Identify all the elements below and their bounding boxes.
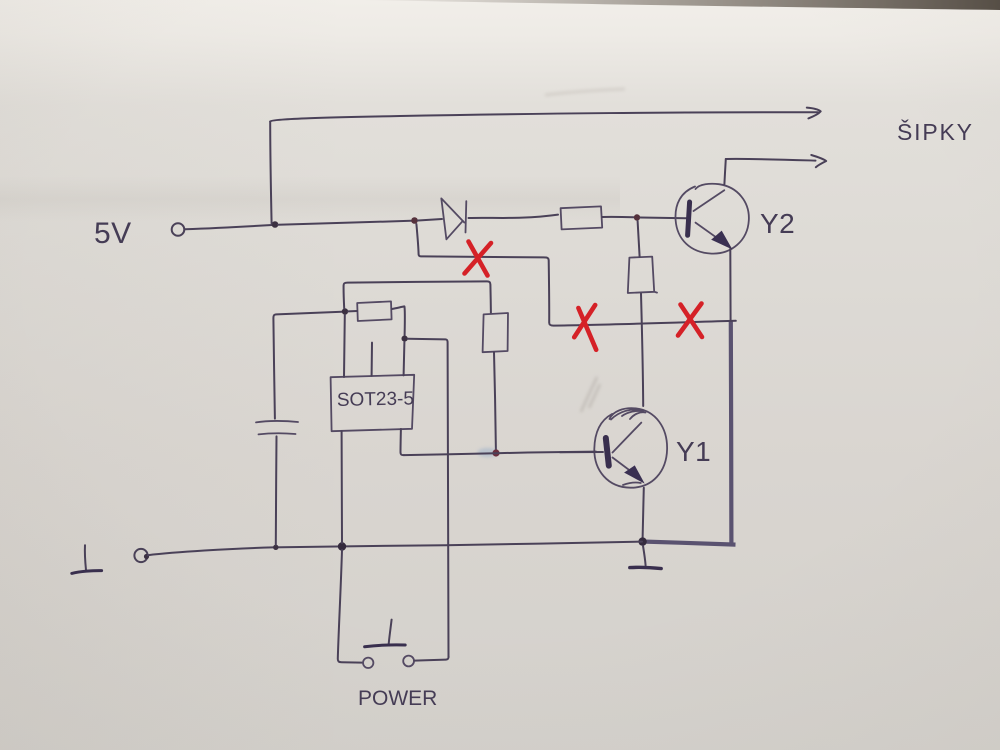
- node D junction dot: [273, 545, 278, 550]
- wire node F up and loop top to R3: [344, 281, 491, 313]
- wire 5V terminal to node A: [185, 225, 272, 229]
- wire switch right contact to vertical: [414, 656, 448, 660]
- wire Y1 base rail: [404, 452, 596, 456]
- svg-text:SOT23-5: SOT23-5: [337, 388, 415, 411]
- resistor R1: [561, 206, 603, 229]
- wire Y1 base into circle: [560, 451, 603, 453]
- terminal 5V input: [172, 223, 185, 236]
- wire node E down to switch left: [338, 550, 362, 663]
- U1 pin 2 top floating: [371, 343, 373, 376]
- transistor Y1 base bar: [606, 438, 609, 466]
- wire top rail (net SIPKY upper): [270, 112, 818, 121]
- mark X2 red cross: [574, 305, 596, 350]
- capacitor C1 bottom plate: [259, 433, 296, 434]
- wire Y2 emitter down (thin part): [729, 249, 731, 324]
- svg-text:Y2: Y2: [760, 208, 795, 239]
- wire ground rail: [148, 542, 642, 556]
- svg-text:ŠIPKY: ŠIPKY: [897, 118, 974, 145]
- svg-text:Y1: Y1: [676, 436, 711, 467]
- wire Y1 emitter down: [643, 488, 644, 539]
- wire collector arrow (net SIPKY lower): [726, 159, 816, 161]
- transistor Y2 base bar: [688, 202, 690, 235]
- wire R2 bottom to Y1 collector: [641, 294, 643, 406]
- U1 pin bottom-right to Y1 base rail: [401, 429, 405, 455]
- svg-text:5V: 5V: [94, 217, 132, 250]
- wire node A to node B: [278, 221, 411, 225]
- wire capacitor to ground rail: [275, 436, 278, 544]
- wire Y2 collector up: [724, 159, 725, 184]
- transistor Y2 emitter stroke with arrow: [696, 223, 729, 247]
- node H junction dot: [492, 449, 499, 456]
- U1 pin 1 top: [343, 315, 346, 377]
- wire node B to diode anode: [418, 219, 442, 221]
- node B drop wire to cross rail: [416, 224, 735, 326]
- node C junction dot: [634, 214, 640, 220]
- node G junction dot: [638, 537, 646, 545]
- resistor R3: [483, 313, 508, 352]
- resistor R4: [357, 301, 391, 321]
- transistor Y1 emitter stroke with arrow: [613, 458, 639, 478]
- switch S1 lever: [389, 620, 392, 644]
- arrowhead lower: [811, 155, 826, 167]
- node F junction dot: [342, 308, 348, 314]
- wire node I to switch-right vertical: [408, 339, 449, 657]
- ground symbol at Y1 emitter: [643, 546, 646, 566]
- wire node C to Y2 base: [640, 217, 686, 220]
- mark X1 red cross: [465, 242, 492, 276]
- transistor Y1 circle overlap strokes: [611, 409, 646, 419]
- node E junction dot: [338, 542, 346, 550]
- transistor Y2 circle: [675, 184, 748, 254]
- transistor Y1 collector stroke: [613, 423, 642, 453]
- wire R4 to node I: [392, 306, 405, 335]
- wire thick vertical Y2 emitter to ground rail: [729, 321, 734, 545]
- U1 pin 3 top: [403, 342, 406, 375]
- svg-text:POWER: POWER: [358, 687, 437, 710]
- node B junction dot: [411, 217, 418, 224]
- switch S1 left contact: [363, 658, 373, 668]
- terminal ground input: [134, 549, 147, 562]
- wire diode cathode to R1: [469, 215, 559, 218]
- wire R3 bottom to node H: [494, 352, 496, 450]
- transistor Y2 collector stroke: [694, 190, 725, 211]
- node I junction dot: [402, 336, 408, 342]
- resistor R2: [628, 257, 657, 293]
- wire capacitor branch top corner: [273, 312, 345, 419]
- mark X3 red cross: [678, 304, 702, 338]
- SOT23-5 box U1: [331, 375, 415, 431]
- switch S1 right contact: [403, 656, 414, 667]
- wire node A up to top rail: [270, 122, 271, 224]
- U1 pin bottom-left to node E and switch: [341, 431, 343, 543]
- ground symbol left: [85, 545, 86, 570]
- wire node F to R4: [348, 310, 357, 312]
- blue smudge at node H: [478, 448, 498, 457]
- wire R1 to node C: [602, 216, 633, 218]
- transistor Y1 circle: [594, 408, 667, 488]
- faint pencil smudges: [581, 377, 600, 412]
- wire node C to R2 top: [638, 221, 640, 256]
- paper top edge shadow: [360, 0, 1000, 10]
- node A junction dot: [272, 221, 279, 228]
- diode D1: [441, 198, 466, 239]
- capacitor C1 top plate: [256, 421, 298, 422]
- arrowhead top rail: [807, 108, 821, 119]
- wire thick ground segment: [646, 542, 736, 545]
